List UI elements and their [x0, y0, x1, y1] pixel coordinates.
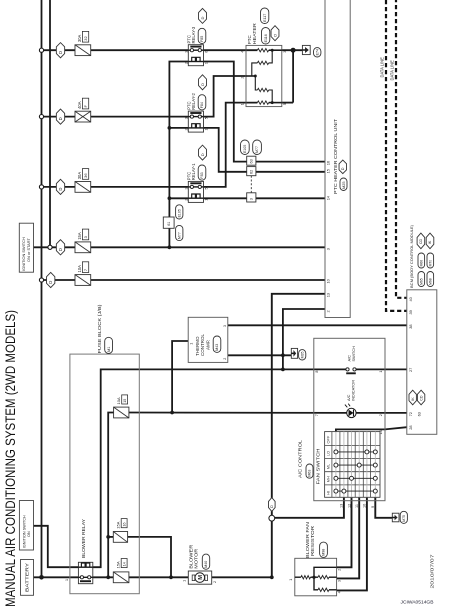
- svg-text:IGNITION SWITCH: IGNITION SWITCH: [22, 515, 26, 548]
- fan switch contacts MH row: [336, 477, 375, 479]
- BCM pin hexagon CD: [417, 390, 424, 405]
- svg-text:E105: E105: [243, 145, 247, 153]
- fuse 10A 7: [75, 275, 91, 286]
- svg-text:F83: F83: [200, 172, 204, 178]
- svg-text:RELAY-2: RELAY-2: [191, 92, 196, 109]
- svg-text:3: 3: [250, 198, 254, 200]
- svg-text:ON or START: ON or START: [26, 238, 31, 262]
- fan switch contacts ML row: [336, 464, 375, 466]
- svg-text:M70: M70: [428, 260, 432, 267]
- svg-text:E117: E117: [263, 14, 267, 22]
- wire fuse 16 feed stub: [108, 536, 113, 538]
- blower relay contacts: [78, 576, 92, 578]
- wire E74 drop vertical: [292, 50, 294, 102]
- PTC relay relay-2 box: [188, 111, 203, 132]
- svg-text:1: 1: [379, 371, 383, 373]
- svg-text:BLOWER: BLOWER: [188, 544, 194, 569]
- svg-text:15: 15: [326, 169, 331, 173]
- PTC heater internal junctions: [271, 49, 274, 52]
- svg-text:3: 3: [283, 51, 287, 53]
- wire branch fuse 32 to PTC relay-3: [44, 49, 189, 51]
- fuse 15A 14: [113, 572, 129, 583]
- junction dot at E74: [291, 48, 296, 53]
- svg-text:M63: M63: [308, 470, 312, 477]
- wire relay coil common riser: [169, 62, 188, 248]
- data line 2 dashed to BCM pin 40: [396, 0, 407, 298]
- svg-text:3: 3: [184, 51, 188, 53]
- PTC heater resistor row 1: [257, 49, 268, 52]
- svg-text:E105: E105: [177, 209, 181, 217]
- connector 62: [247, 167, 256, 176]
- connector E74: [302, 45, 310, 54]
- svg-text:2: 2: [379, 414, 383, 416]
- svg-text:D: D: [58, 248, 63, 251]
- svg-text:1: 1: [289, 579, 293, 581]
- svg-text:M40: M40: [204, 561, 208, 568]
- svg-text:15: 15: [123, 399, 127, 403]
- wire control unit pin 2 drop: [283, 309, 325, 369]
- svg-text:30A: 30A: [77, 172, 82, 180]
- connector hexagon D branch 5: [47, 272, 55, 287]
- wire connector 3 to control unit pin 14: [256, 197, 325, 199]
- svg-text:BCM (BODY CONTROL MODULE): BCM (BODY CONTROL MODULE): [409, 224, 414, 288]
- PTC relay relay-1 box: [188, 181, 203, 202]
- A/C indicator LED: [347, 408, 356, 417]
- wire A/C switch to BCM pin 27: [355, 368, 407, 370]
- bus junction node branch 5: [39, 278, 43, 282]
- svg-text:A/C CONTROL: A/C CONTROL: [298, 439, 303, 478]
- svg-text:1: 1: [240, 103, 244, 105]
- fuse 30A 32: [75, 45, 91, 56]
- svg-text:13: 13: [340, 504, 344, 508]
- PTC relay relay-3 coil: [188, 61, 203, 63]
- ignition switch ON box: [19, 501, 33, 551]
- connector hexagon D branch 3: [56, 179, 64, 194]
- wire ignition fuse 3 branch to control unit pin 3: [34, 246, 326, 248]
- BCM connector oval M65: [418, 272, 425, 287]
- PTC relay relay-2 contact terminals: [190, 115, 193, 118]
- wire fuse 16 to blower motor line: [128, 537, 171, 577]
- connector 63: [247, 156, 256, 165]
- A/C switch symbol: [346, 368, 349, 371]
- wire thermo amp pin 3 to BCM pin 38: [228, 324, 407, 326]
- wire PTC relay-3 contact to PTC heater pin 4: [204, 49, 258, 51]
- svg-text:2: 2: [326, 310, 331, 312]
- svg-text:6: 6: [204, 51, 208, 53]
- svg-text:FAN SWITCH: FAN SWITCH: [316, 449, 321, 485]
- svg-text:5: 5: [204, 188, 208, 190]
- svg-text:M1: M1: [107, 347, 111, 352]
- wire ignition bus: [49, 0, 51, 245]
- svg-text:2: 2: [337, 569, 341, 571]
- svg-text:E74: E74: [315, 49, 319, 55]
- svg-text:2: 2: [223, 358, 227, 360]
- junction dot thermo feed: [170, 411, 174, 415]
- blower relay box: [78, 562, 92, 583]
- wire fan switch pin 9 to connector M75: [375, 497, 392, 518]
- svg-text:M: M: [198, 575, 204, 580]
- wire fan switch pin 12 to resistor: [337, 497, 352, 567]
- svg-text:RELAY-1: RELAY-1: [191, 163, 196, 180]
- svg-text:15A: 15A: [77, 232, 82, 240]
- blower relay fixed bar: [80, 580, 91, 582]
- blower fan resistor wires: [295, 576, 301, 578]
- svg-text:63: 63: [416, 412, 421, 416]
- svg-text:8: 8: [315, 371, 319, 373]
- svg-text:15A: 15A: [115, 521, 120, 528]
- svg-text:1: 1: [204, 62, 208, 64]
- svg-text:OFF: OFF: [326, 435, 331, 443]
- svg-text:MANUAL AIR CONDITIONING SYSTEM: MANUAL AIR CONDITIONING SYSTEM (2WD MODE…: [3, 310, 18, 607]
- svg-text:BATTERY: BATTERY: [25, 562, 31, 592]
- bus junction node branch 4: [48, 245, 52, 249]
- PTC relay relay-1 contact terminals: [190, 185, 193, 188]
- svg-text:3: 3: [223, 325, 227, 327]
- PTC heater box: [246, 45, 282, 106]
- wire blower relay output to A/C switch pin 8: [93, 369, 347, 567]
- ignition switch ON or START label: [19, 223, 33, 272]
- svg-text:M68: M68: [428, 278, 432, 285]
- svg-text:CD: CD: [419, 395, 423, 401]
- svg-text:DATA LINE: DATA LINE: [390, 60, 395, 81]
- wire fuse 7 branch to control unit pin 10: [44, 279, 326, 281]
- svg-text:13: 13: [326, 293, 331, 297]
- svg-text:LO: LO: [326, 451, 331, 456]
- fusible link 40A F: [75, 111, 91, 122]
- svg-text:IK: IK: [411, 397, 415, 401]
- PTC relay relay-3 contact wire: [188, 49, 203, 51]
- svg-text:62: 62: [250, 170, 254, 174]
- PTC relay relay-3 movable contact bar: [190, 46, 201, 48]
- fan switch contacts LO row: [336, 451, 375, 453]
- svg-text:72: 72: [408, 412, 413, 416]
- data line 1 dashed to BCM pin 39: [386, 0, 407, 311]
- svg-text:7: 7: [315, 414, 319, 416]
- svg-text:4: 4: [337, 591, 341, 593]
- connector D circle to blower motor harness: [269, 515, 275, 521]
- PTC relay relay-2 movable contact bar: [190, 112, 201, 114]
- PTC heater resistor row 4: [257, 101, 268, 104]
- svg-text:D: D: [200, 83, 205, 86]
- BCM connector oval M70: [427, 253, 434, 268]
- svg-text:JCIWA0514GB: JCIWA0514GB: [401, 600, 434, 605]
- BCM connector oval M66: [418, 253, 425, 268]
- svg-text:D: D: [48, 281, 53, 284]
- connector M75: [392, 513, 399, 522]
- PTC relay relay-1 movable contact bar: [190, 182, 201, 184]
- PTC relay relay-2 coil: [188, 127, 203, 129]
- svg-text:PTC: PTC: [247, 34, 252, 44]
- wire fan switch pin 13 to connector D: [275, 497, 344, 518]
- svg-text:1: 1: [65, 579, 69, 581]
- PTC relay relay-2 contact wire: [188, 116, 203, 118]
- svg-text:M77: M77: [177, 232, 181, 239]
- svg-text:D: D: [200, 153, 205, 156]
- fuse block (J/B) box: [70, 354, 139, 594]
- wire PTC relay-3 coil to connector 63: [204, 62, 247, 162]
- svg-text:39: 39: [408, 310, 413, 314]
- junction dots in fuse block: [106, 535, 110, 539]
- wire fan switch pin 11 to resistor: [337, 497, 360, 578]
- svg-text:10A: 10A: [77, 265, 82, 273]
- svg-text:38: 38: [408, 324, 413, 328]
- fuse 15A 3: [75, 242, 91, 253]
- svg-text:2010/07/07: 2010/07/07: [430, 554, 436, 588]
- svg-text:30A: 30A: [77, 34, 82, 42]
- wire branch fusible link F to PTC relay-2: [44, 116, 189, 118]
- svg-text:3: 3: [184, 117, 188, 119]
- svg-text:12: 12: [347, 504, 351, 508]
- fan switch internal wires: [335, 432, 337, 498]
- svg-text:ON: ON: [27, 531, 31, 537]
- svg-text:2: 2: [213, 581, 217, 583]
- wire fan switch pin 10 to resistor: [337, 497, 367, 590]
- svg-text:2: 2: [184, 199, 188, 201]
- svg-text:1: 1: [189, 343, 193, 345]
- wire branch fuse 36 to PTC relay-1: [44, 186, 189, 188]
- connector M35: [291, 348, 297, 358]
- svg-text:3: 3: [326, 248, 331, 250]
- connector hexagon D branch 1: [56, 43, 64, 58]
- svg-text:E116: E116: [264, 34, 268, 42]
- wire PTC relay-1 contact to PTC heater pin 1: [204, 103, 258, 187]
- fan switch contacts HI row: [336, 490, 375, 492]
- connector hexagon D branch 2: [56, 109, 64, 124]
- BCM connector hexagon IK: [426, 233, 434, 249]
- svg-text:1: 1: [183, 580, 187, 582]
- connector hexagon D branch 4: [56, 240, 64, 255]
- svg-text:HI: HI: [326, 491, 331, 495]
- junction dots on control unit pin 2 drop: [281, 353, 285, 357]
- svg-text:32: 32: [83, 35, 88, 40]
- svg-text:2: 2: [184, 129, 188, 131]
- svg-text:28: 28: [408, 425, 413, 429]
- svg-text:10A: 10A: [116, 397, 121, 404]
- svg-text:16: 16: [326, 161, 331, 165]
- svg-text:RESISTOR: RESISTOR: [310, 525, 315, 556]
- svg-text:9: 9: [371, 506, 375, 508]
- junction dot blower motor line: [270, 575, 274, 579]
- svg-text:36: 36: [83, 173, 88, 178]
- svg-text:D: D: [341, 167, 345, 170]
- wire A/C indicator to BCM pin 72: [354, 412, 406, 414]
- svg-text:15A: 15A: [115, 561, 120, 568]
- connector 62-63 harness ovals: [241, 140, 250, 155]
- svg-text:SWITCH: SWITCH: [351, 346, 356, 362]
- svg-text:M75: M75: [402, 515, 406, 522]
- svg-text:F84: F84: [200, 102, 204, 108]
- svg-text:2: 2: [184, 62, 188, 64]
- PTC heater pin 2 wire: [246, 75, 255, 77]
- svg-text:M25: M25: [342, 182, 346, 189]
- connector 3: [250, 176, 252, 193]
- A/C control box: [314, 338, 385, 500]
- svg-text:F85: F85: [200, 36, 204, 42]
- svg-text:IK: IK: [428, 240, 432, 244]
- wire control unit pin 13 to blower motor: [272, 294, 325, 578]
- bus junction node branch 2: [39, 115, 43, 119]
- thermo control amp box: [188, 317, 228, 362]
- svg-text:M98: M98: [322, 549, 326, 556]
- svg-text:D: D: [58, 117, 63, 120]
- svg-text:63: 63: [250, 159, 254, 163]
- fuse 10A 15: [114, 407, 129, 418]
- wire thermo amp pin 1 feed: [172, 341, 188, 413]
- wire PTC relay-2 coil left: [169, 127, 188, 129]
- svg-text:RELAY-3: RELAY-3: [191, 26, 196, 43]
- svg-text:3: 3: [337, 580, 341, 582]
- svg-text:PTC HEATER CONTROL UNIT: PTC HEATER CONTROL UNIT: [333, 119, 338, 194]
- svg-text:16: 16: [122, 523, 126, 527]
- svg-text:M35: M35: [300, 352, 304, 359]
- svg-text:M43: M43: [215, 344, 219, 351]
- PTC heater control unit box: [325, 0, 350, 318]
- wire PTC heater pin group to connector E74: [282, 49, 303, 51]
- svg-text:DATA LINE: DATA LINE: [380, 57, 385, 78]
- PTC relay relay-1 coil: [188, 197, 203, 199]
- svg-text:61: 61: [167, 222, 171, 226]
- svg-text:14: 14: [122, 562, 126, 566]
- svg-text:4: 4: [240, 51, 244, 53]
- svg-text:AMP.: AMP.: [205, 340, 210, 350]
- svg-text:MOTOR: MOTOR: [193, 548, 199, 569]
- svg-text:2: 2: [240, 77, 244, 79]
- svg-text:HEATER: HEATER: [252, 22, 257, 44]
- svg-text:D: D: [58, 51, 63, 54]
- wire battery bus: [41, 0, 43, 577]
- svg-text:10: 10: [363, 504, 367, 508]
- wire thermo amp pin 2 to connector M35: [228, 354, 291, 356]
- svg-text:1: 1: [204, 199, 208, 201]
- svg-text:M65: M65: [419, 278, 423, 285]
- BCM pin hexagon IK: [409, 390, 416, 405]
- junction dots on relay coil riser: [168, 126, 172, 130]
- svg-text:FUSE BLOCK (J/B): FUSE BLOCK (J/B): [97, 304, 102, 354]
- wire fan switch common to BCM pin 28: [336, 427, 407, 431]
- svg-text:M66: M66: [419, 260, 423, 267]
- wire PTC relay-2 coil to connector 62: [204, 128, 247, 172]
- BCM (body control module) box: [407, 290, 437, 435]
- PTC relay relay-3 contact terminals: [190, 49, 193, 52]
- svg-text:BLOWER RELAY: BLOWER RELAY: [81, 519, 86, 558]
- battery box: [21, 560, 34, 596]
- PTC relay relay-3 box: [188, 45, 203, 66]
- blower fan resistor box: [295, 558, 337, 596]
- connector 61: [163, 217, 174, 228]
- svg-text:INDICATOR: INDICATOR: [350, 380, 355, 401]
- wire fuse 15 to A/C control pin 7: [129, 412, 348, 414]
- wire battery feed through blower relay and fuse 14 to blower motor: [34, 576, 272, 578]
- fan switch grid: [325, 432, 380, 498]
- PTC heater resistor row 2: [257, 61, 268, 64]
- PTC relay relay-1 contact wire: [188, 186, 203, 188]
- blower motor box: [188, 571, 211, 584]
- svg-text:M77: M77: [255, 146, 259, 153]
- blower relay coil: [78, 566, 92, 568]
- bus junction node branch 3: [39, 185, 43, 189]
- wire PTC relay-2 contact to PTC heater pin 2: [204, 76, 247, 117]
- svg-text:MH: MH: [326, 476, 331, 482]
- svg-text:27: 27: [408, 368, 413, 372]
- wire ignition switch to blower relay coil: [34, 526, 79, 567]
- svg-text:5: 5: [283, 103, 287, 105]
- svg-text:D: D: [200, 17, 205, 20]
- wire connector 63 to control unit pin 16: [256, 161, 325, 163]
- svg-text:40A: 40A: [77, 101, 82, 109]
- svg-text:5: 5: [204, 117, 208, 119]
- svg-text:ML: ML: [326, 463, 331, 469]
- PTC heater resistor row 3: [257, 88, 268, 91]
- svg-text:CD: CD: [419, 239, 423, 245]
- BCM connector hexagon CD: [417, 233, 425, 249]
- wire fuse riser inside fuse block: [108, 413, 113, 578]
- svg-text:1: 1: [204, 129, 208, 131]
- wire PTC heater bottom output: [282, 102, 293, 104]
- bus junction node branch 1: [39, 48, 43, 52]
- wire connector 62 to control unit pin 15: [256, 171, 325, 173]
- svg-text:3: 3: [184, 188, 188, 190]
- svg-text:D: D: [58, 188, 63, 191]
- BCM connector oval M68: [427, 272, 434, 287]
- fuse 15A 16: [113, 532, 127, 543]
- wire PTC relay-1 coil to connector 3: [204, 197, 247, 199]
- fuse 30A 36: [75, 182, 91, 193]
- wire PTC relay-1 coil left: [169, 197, 188, 199]
- svg-text:D: D: [270, 505, 274, 508]
- svg-text:D: D: [272, 34, 277, 37]
- svg-text:11: 11: [355, 504, 359, 508]
